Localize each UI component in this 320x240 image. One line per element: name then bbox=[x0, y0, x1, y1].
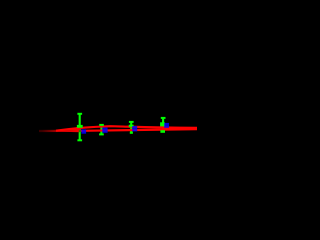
red fit line lower bbox=[39, 129, 197, 131]
error bar E1 top cap bbox=[77, 113, 82, 115]
error bar E2 top cap + marker M2 (over red) bbox=[99, 124, 104, 126]
green marker M1 (redrawn over red) bbox=[77, 125, 83, 128]
blue marker B1 bbox=[81, 129, 86, 133]
error bar E3 vertical bbox=[130, 122, 132, 133]
blue marker B2 bbox=[102, 128, 107, 133]
error bar E2 vertical bbox=[100, 125, 102, 135]
error bar E1 bottom cap bbox=[77, 139, 82, 141]
error bar E3 bottom cap bbox=[130, 132, 133, 134]
error bar E4 vertical bbox=[162, 118, 164, 132]
blue marker B4 bbox=[164, 123, 169, 128]
green bar E1 ghost through red bbox=[79, 130, 81, 132]
red fit line upper curved bbox=[56, 126, 197, 131]
error bar E1 vertical (green, under red) bbox=[79, 114, 81, 141]
green marker M4 bbox=[160, 122, 165, 127]
error bar E4 top cap bbox=[161, 117, 166, 119]
blue marker B3 bbox=[132, 126, 137, 131]
error bar E3 top cap bbox=[129, 121, 134, 123]
red wedge fill between fit lines at left bbox=[57, 127, 80, 133]
green marker M3 (over red) bbox=[129, 125, 134, 128]
error bar E2 bottom cap bbox=[99, 133, 104, 135]
error bar E4 bottom cap (over red) bbox=[160, 130, 165, 133]
